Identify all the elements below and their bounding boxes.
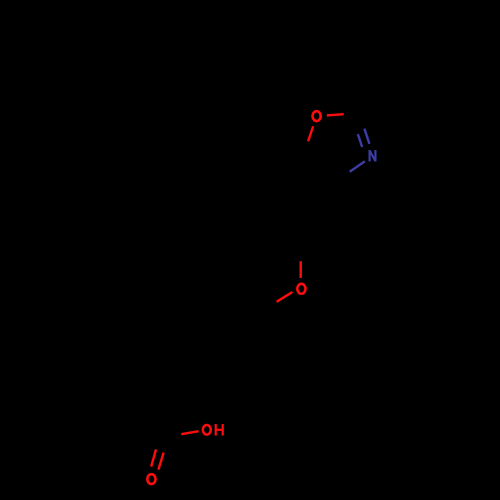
carbonyl O (147, 474, 155, 484)
wire O1-C7a (red half, oxazole O to ring) (308, 126, 313, 141)
wire N3-C3a (blue half) (350, 161, 365, 171)
wire C2=N3 inner (blue half) (358, 134, 362, 147)
oxazole O1 (313, 111, 321, 121)
hydroxyl OH (203, 424, 223, 436)
wire C(acid)-OH (red half) (181, 431, 198, 434)
wire Oether-CH2 (red half, down-left) (277, 292, 293, 302)
wire C=O inner (red half) (151, 449, 156, 466)
wire O1-C2 (red half, oxazole O to C2) (327, 114, 344, 115)
ether O (297, 284, 305, 294)
wire C2=N3 main (blue half) (364, 129, 369, 144)
wire Oether-C5 (red half, vertical) (300, 261, 302, 278)
wire C=O main (red half) (158, 453, 163, 470)
nitrogen N3 (370, 150, 376, 162)
